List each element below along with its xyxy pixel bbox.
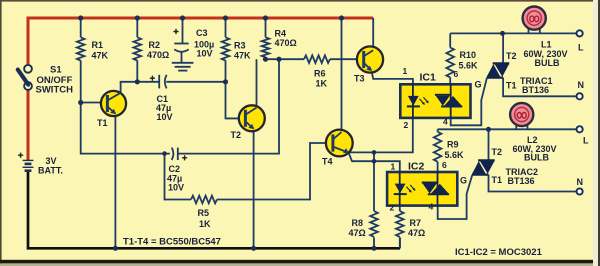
svg-text:R4: R4 [275,29,287,39]
svg-text:R10: R10 [460,50,477,60]
svg-text:T1: T1 [506,81,517,91]
svg-text:1: 1 [403,66,408,76]
svg-text:C3: C3 [196,28,208,38]
svg-text:T2: T2 [506,51,517,61]
svg-text:4: 4 [443,117,448,127]
svg-text:G: G [460,176,467,186]
svg-text:G: G [475,80,482,90]
svg-text:T1-T4 = BC550/BC547: T1-T4 = BC550/BC547 [123,237,221,248]
svg-text:L1: L1 [541,40,552,50]
svg-text:R3: R3 [234,41,246,51]
svg-text:T1: T1 [97,118,108,128]
svg-text:47Ω: 47Ω [349,228,366,238]
svg-text:L: L [578,43,584,53]
svg-text:T4: T4 [322,157,333,167]
svg-text:T2: T2 [492,147,503,157]
svg-text:3V: 3V [46,156,57,166]
svg-text:2: 2 [390,203,395,213]
svg-text:T3: T3 [354,74,365,84]
svg-text:5.6K: 5.6K [459,61,479,71]
svg-text:BATT.: BATT. [38,166,63,176]
svg-text:10V: 10V [197,49,213,59]
svg-text:BULB: BULB [524,153,549,163]
svg-text:47K: 47K [92,51,109,61]
svg-text:IC1-IC2 = MOC3021: IC1-IC2 = MOC3021 [455,247,543,258]
svg-text:1: 1 [391,162,396,172]
svg-text:N: N [577,177,584,187]
svg-text:IC1: IC1 [420,72,437,84]
svg-text:4: 4 [429,202,434,212]
svg-text:5.6K: 5.6K [445,150,465,160]
svg-text:47K: 47K [234,51,251,61]
svg-text:6: 6 [442,160,447,170]
svg-text:BULB: BULB [535,58,560,68]
svg-text:BT136: BT136 [508,176,535,186]
svg-text:R8: R8 [352,218,364,228]
svg-text:BT136: BT136 [522,85,549,95]
svg-text:1K: 1K [199,219,211,229]
svg-text:10V: 10V [157,112,173,122]
svg-text:C2: C2 [169,164,181,174]
svg-text:R2: R2 [149,40,161,50]
svg-text:R5: R5 [198,208,210,218]
svg-text:T2: T2 [231,130,242,140]
svg-text:R9: R9 [447,140,459,150]
svg-text:470Ω: 470Ω [275,38,297,48]
svg-text:6: 6 [454,69,459,79]
svg-text:1K: 1K [316,79,328,89]
svg-text:R6: R6 [314,69,326,79]
svg-text:R7: R7 [410,218,422,228]
svg-text:47Ω: 47Ω [408,228,425,238]
svg-text:T1: T1 [492,175,503,185]
svg-text:2: 2 [404,120,409,130]
svg-text:L: L [583,136,589,146]
svg-text:10V: 10V [168,183,184,193]
svg-text:470Ω: 470Ω [147,50,169,60]
svg-text:R1: R1 [92,40,104,50]
svg-text:SWITCH: SWITCH [36,85,74,96]
svg-text:N: N [578,80,585,90]
svg-text:IC2: IC2 [408,161,425,173]
svg-text:S1: S1 [50,65,62,76]
